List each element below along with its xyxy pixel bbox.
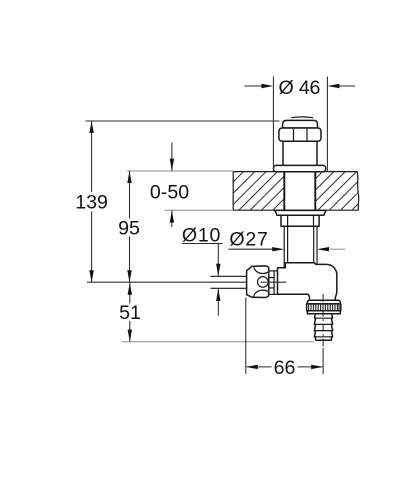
- dimension diameter 27: [228, 229, 345, 252]
- dimension 0-50: [150, 143, 189, 227]
- escutcheon flange: [274, 165, 326, 171]
- svg-text:0-50: 0-50: [150, 182, 189, 204]
- handle knob: [247, 266, 269, 298]
- outlet nut flange: [307, 300, 340, 304]
- hose end extension line: [122, 341, 314, 343]
- dimension 95: [118, 171, 140, 282]
- deck bottom extension line: [165, 209, 234, 211]
- knob center dash: [261, 281, 267, 283]
- deck hole edges: [283, 172, 285, 211]
- body axis line: [269, 281, 286, 283]
- valve body elbow: [278, 263, 337, 300]
- wall/deck hatching: [194, 172, 391, 211]
- deck outline: [233, 172, 358, 211]
- cap dome: [283, 120, 318, 128]
- cap cylinder: [283, 141, 317, 165]
- cap top extension line: [85, 120, 279, 122]
- dimension diameter 46: [245, 77, 356, 172]
- svg-text:51: 51: [119, 302, 141, 324]
- deck top extension line: [127, 170, 233, 172]
- knurled nut band: [307, 304, 341, 311]
- washer under deck: [275, 210, 326, 215]
- deck break edge: [357, 172, 359, 211]
- svg-text:Ø 46: Ø 46: [279, 77, 321, 99]
- svg-text:95: 95: [118, 218, 140, 240]
- hose barb: [314, 314, 332, 341]
- svg-text:66: 66: [274, 357, 296, 379]
- lock nut: [281, 215, 319, 226]
- dimension diameter 10: [182, 225, 223, 316]
- cap hex: [279, 128, 321, 141]
- threaded pipe: [284, 226, 317, 268]
- spindle stem lines: [210, 275, 246, 277]
- nut bottom lip: [307, 311, 340, 314]
- dimension 139: [75, 121, 108, 282]
- svg-text:Ø27: Ø27: [229, 229, 268, 251]
- axis reference line: [87, 281, 246, 283]
- dimension 51: [119, 283, 141, 342]
- dimension 66: [246, 298, 323, 380]
- outlet centerline: [322, 294, 324, 348]
- svg-text:139: 139: [75, 192, 108, 214]
- bonnet: [269, 271, 278, 295]
